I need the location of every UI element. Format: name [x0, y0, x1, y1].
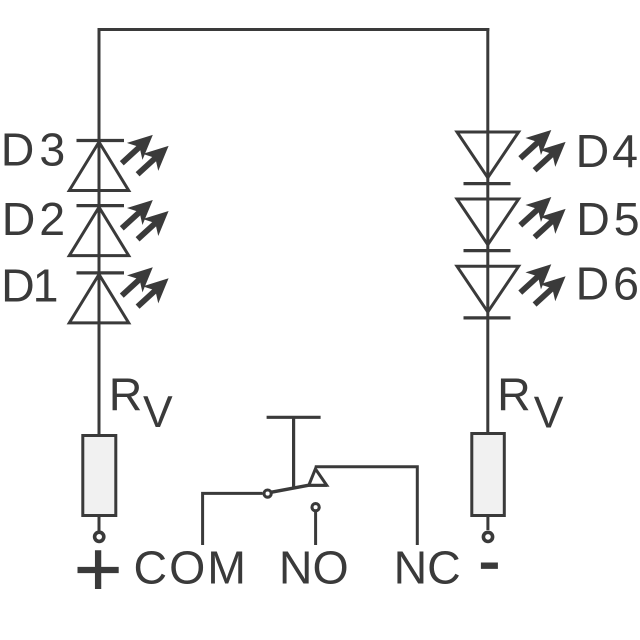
LED D2 emission arrows: [114, 192, 176, 248]
LED D4: [457, 132, 519, 184]
svg-text:V: V: [534, 389, 564, 438]
svg-text:D3: D3: [1, 123, 65, 175]
svg-text:R: R: [497, 369, 531, 421]
plus symbol: [78, 550, 119, 589]
svg-text:D2: D2: [2, 193, 65, 245]
wire COM terminal: [203, 493, 263, 545]
resistor RV right: [472, 434, 505, 516]
pushbutton plunger: [267, 417, 321, 487]
svg-text:R: R: [109, 368, 143, 420]
LED D1 emission arrows: [114, 259, 176, 315]
svg-text:D4: D4: [576, 125, 638, 177]
LED D4 emission arrows: [513, 122, 574, 179]
svg-text:D5: D5: [576, 193, 639, 245]
wire right vertical: [486, 28, 489, 435]
switch contact triangle: [309, 469, 327, 485]
LED D3: [69, 141, 128, 191]
LED D6 emission arrows: [513, 256, 574, 313]
switch pivot circle COM: [264, 490, 271, 497]
svg-text:V: V: [143, 388, 173, 437]
LED D5 emission arrows: [513, 189, 574, 246]
svg-text:D6: D6: [576, 257, 639, 309]
label RV left: [109, 368, 173, 437]
switch arm: [271, 485, 327, 492]
wire top horizontal: [98, 28, 490, 31]
wire NC terminal: [315, 467, 418, 545]
LED D1: [69, 273, 128, 323]
wire right resistor to terminal: [486, 516, 489, 531]
svg-text:D1: D1: [1, 259, 58, 311]
wire NO terminal: [314, 512, 317, 545]
LED D2: [69, 206, 128, 256]
svg-text:NC: NC: [394, 542, 461, 594]
terminal circle minus: [483, 532, 492, 541]
wire left resistor to terminal: [98, 516, 101, 532]
svg-text:NO: NO: [279, 542, 349, 594]
LED D5: [457, 199, 519, 251]
svg-text:COM: COM: [134, 542, 247, 594]
minus symbol: [481, 563, 498, 569]
label RV right: [497, 369, 564, 438]
switch NO contact circle: [312, 504, 319, 511]
LED D6: [457, 266, 519, 318]
wire left vertical: [98, 28, 101, 437]
resistor RV left: [83, 436, 116, 516]
terminal circle plus: [95, 532, 104, 541]
LED D3 emission arrows: [114, 126, 176, 182]
